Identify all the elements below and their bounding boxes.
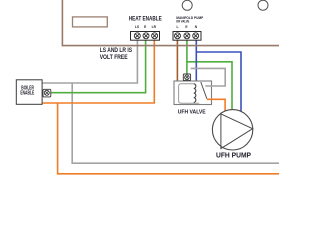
svg-text:LR: LR xyxy=(152,25,157,29)
svg-text:E: E xyxy=(185,25,188,29)
svg-text:ENABLE: ENABLE xyxy=(20,91,34,97)
svg-text:LS: LS xyxy=(135,25,140,29)
svg-text:UFH VALVE: UFH VALVE xyxy=(178,109,206,115)
svg-text:LS AND LR IS: LS AND LR IS xyxy=(100,48,132,54)
svg-text:HEAT ENABLE: HEAT ENABLE xyxy=(129,16,162,22)
svg-text:E: E xyxy=(144,25,147,29)
svg-text:N: N xyxy=(195,25,198,29)
svg-text:L: L xyxy=(176,25,178,29)
svg-text:VOLT FREE: VOLT FREE xyxy=(100,55,128,61)
svg-text:OR VALVE: OR VALVE xyxy=(176,20,190,24)
svg-text:UFH PUMP: UFH PUMP xyxy=(216,152,251,159)
